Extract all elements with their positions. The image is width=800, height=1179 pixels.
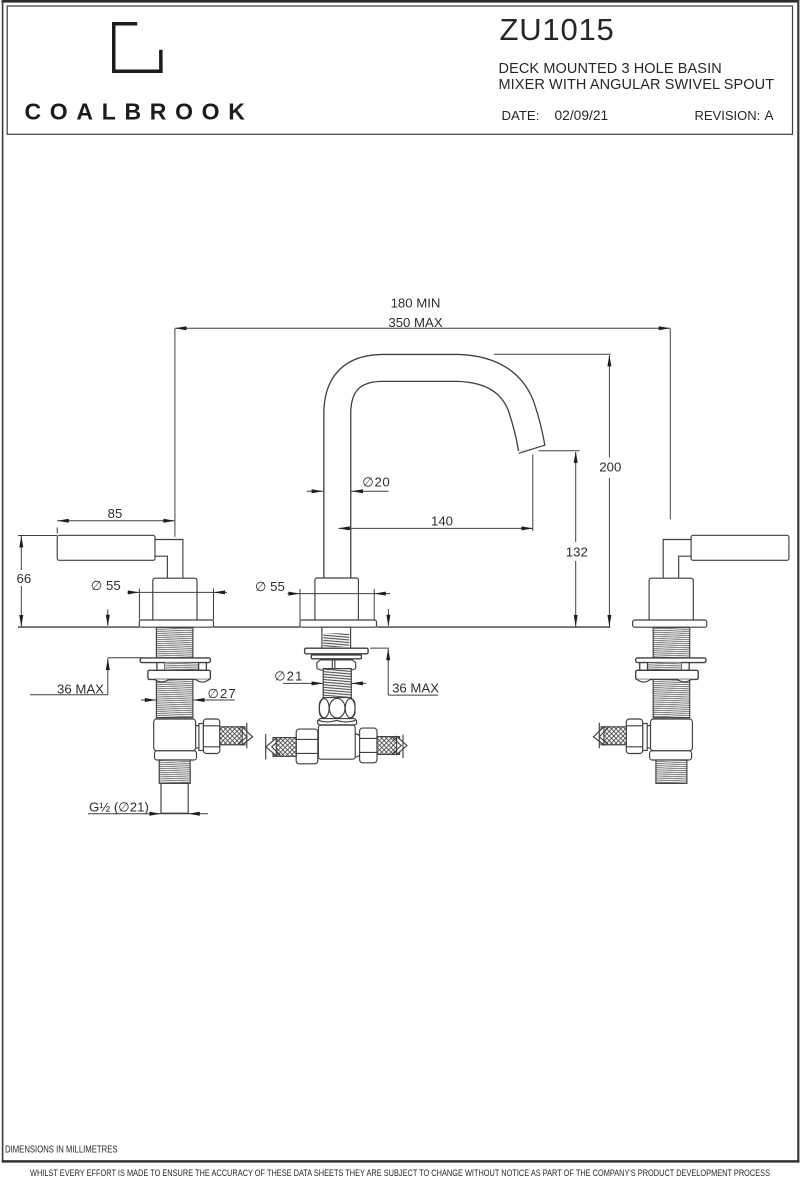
dim 200 extension top bbox=[494, 353, 611, 355]
right handle assembly (mirror of left) bbox=[594, 535, 789, 783]
dim 66 extension top bbox=[18, 535, 57, 537]
coalbrook logo mark bbox=[112, 22, 163, 73]
spout hex nut bbox=[317, 660, 356, 671]
dim O20 line right bbox=[351, 490, 388, 492]
spout flange bbox=[300, 620, 377, 627]
arrows 140 bbox=[338, 526, 350, 530]
svg-text:REVISION:: REVISION: bbox=[695, 108, 761, 123]
bottom page border bbox=[2, 1160, 800, 1162]
arrows 36MAX center bbox=[386, 615, 390, 627]
elbow inner bbox=[155, 556, 167, 578]
arrows G1/2 bbox=[149, 812, 161, 816]
spout left hose cone bbox=[311, 735, 324, 758]
svg-text:DECK MOUNTED 3 HOLE BASIN: DECK MOUNTED 3 HOLE BASIN bbox=[499, 61, 722, 77]
svg-text:DIMENSIONS IN MILLIMETRES: DIMENSIONS IN MILLIMETRES bbox=[5, 1144, 118, 1155]
elbow outer bbox=[155, 540, 183, 579]
svg-text:∅ 55: ∅ 55 bbox=[91, 578, 121, 593]
deck line left segment bbox=[18, 626, 139, 628]
header box bbox=[7, 6, 792, 134]
lever bbox=[57, 535, 155, 560]
spout left hose break bbox=[266, 734, 281, 760]
right page border bbox=[797, 0, 799, 1163]
dim O20 line left bbox=[307, 490, 323, 492]
hose break bbox=[238, 723, 253, 749]
dim 85 extension left bbox=[56, 528, 58, 534]
hose braid bbox=[220, 727, 245, 745]
spout tip cleanup bbox=[518, 445, 553, 476]
hose cone bbox=[190, 726, 204, 749]
tab left bbox=[157, 663, 165, 671]
locking nut bbox=[148, 670, 211, 679]
deck line between left handle and spout bbox=[214, 626, 301, 628]
dim 132 extension top bbox=[539, 450, 580, 452]
svg-text:∅ 55: ∅ 55 bbox=[255, 579, 285, 594]
svg-text:180 MIN: 180 MIN bbox=[391, 296, 441, 311]
arrows O21 bbox=[312, 681, 324, 685]
tab right bbox=[199, 663, 207, 671]
arrows 350MAX bbox=[175, 326, 187, 330]
svg-text:DATE:: DATE: bbox=[502, 108, 540, 123]
flange bbox=[139, 620, 213, 627]
arrows 36MAX left bbox=[106, 615, 110, 627]
svg-text:200: 200 bbox=[599, 459, 621, 474]
spout right hose cone bbox=[350, 734, 363, 757]
svg-text:∅21: ∅21 bbox=[274, 669, 303, 684]
dim 36MAX left line bbox=[107, 609, 109, 625]
svg-text:∅20: ∅20 bbox=[362, 474, 390, 489]
spout shank below deck bbox=[322, 627, 351, 648]
dim 36MAX left extension bbox=[108, 657, 143, 659]
extension line left handle axis bbox=[174, 329, 176, 537]
dim 66 line bbox=[20, 536, 22, 570]
spout threaded tail (Ø21) bbox=[323, 669, 351, 698]
tee collar bbox=[155, 751, 197, 760]
left handle assembly bbox=[57, 535, 252, 783]
dim 36MAX center line bbox=[387, 609, 389, 626]
arrows O55 left bbox=[128, 590, 140, 594]
dim O55 left line bbox=[128, 591, 228, 593]
hose ring bbox=[199, 724, 204, 751]
nut bottom arcs bbox=[155, 679, 210, 682]
spout tube (gooseneck) bbox=[337, 368, 532, 600]
dim 200 line bbox=[608, 356, 610, 458]
deck line right of spout bbox=[377, 626, 611, 628]
spout compression union bbox=[319, 698, 355, 719]
dim 85 line bbox=[57, 520, 175, 522]
thread between tabs bbox=[165, 663, 199, 671]
extension line right handle axis bbox=[669, 329, 671, 520]
spout base cylinder bbox=[315, 578, 359, 620]
svg-text:132: 132 bbox=[566, 545, 588, 560]
lower threaded shank bbox=[156, 679, 193, 717]
dim O55 left extensions bbox=[138, 589, 140, 621]
upper threaded shank bbox=[156, 627, 193, 658]
dim O55 center extensions bbox=[299, 589, 301, 620]
svg-text:66: 66 bbox=[17, 571, 32, 586]
svg-text:36 MAX: 36 MAX bbox=[392, 681, 439, 696]
dim O55 center line bbox=[288, 593, 391, 595]
dim 180MIN/350MAX line bbox=[175, 327, 670, 329]
dim G1/2 line bbox=[88, 813, 208, 815]
arrows 200 bbox=[607, 355, 611, 367]
svg-text:36 MAX: 36 MAX bbox=[57, 682, 104, 697]
dim O21 line bbox=[283, 682, 323, 684]
hose hex nut bbox=[203, 719, 219, 754]
tee body bbox=[154, 719, 196, 751]
svg-text:ZU1015: ZU1015 bbox=[500, 12, 615, 47]
dim 36MAX center extension bbox=[370, 647, 389, 649]
arrows 132 bbox=[574, 451, 578, 463]
arrowheads bbox=[19, 326, 670, 816]
arrows 85 bbox=[57, 519, 69, 523]
left page border bbox=[2, 0, 4, 1163]
valve body bbox=[153, 578, 197, 620]
dim 140 extension right bbox=[532, 455, 534, 532]
arrows O55 center bbox=[288, 592, 300, 596]
spout right hose break bbox=[392, 735, 407, 758]
spout left hose braid bbox=[273, 738, 296, 757]
svg-text:G½ (∅21): G½ (∅21) bbox=[89, 800, 149, 815]
spout tip end face bbox=[519, 445, 545, 453]
lower thread bbox=[159, 760, 190, 783]
svg-text:85: 85 bbox=[108, 506, 123, 521]
arrows O20 bbox=[312, 489, 324, 493]
spout backnut washer 1 bbox=[305, 648, 369, 654]
spout tee body bbox=[318, 725, 355, 759]
spout right hose hex nut bbox=[360, 728, 377, 763]
top black bar bbox=[2, 0, 800, 3]
spout right hose braid bbox=[377, 737, 400, 755]
svg-text:WHILST EVERY EFFORT IS MADE TO: WHILST EVERY EFFORT IS MADE TO ENSURE TH… bbox=[30, 1168, 770, 1179]
svg-text:350 MAX: 350 MAX bbox=[388, 315, 442, 330]
svg-text:COALBROOK: COALBROOK bbox=[25, 99, 254, 125]
arrows 66 bbox=[19, 536, 23, 548]
dim 140 line bbox=[339, 527, 534, 529]
spout backnut washer 2 bbox=[311, 655, 361, 659]
svg-text:A: A bbox=[765, 108, 774, 123]
arrows O27 bbox=[145, 698, 157, 702]
spout tee collar bbox=[318, 719, 357, 725]
spout left hose hex nut bbox=[296, 729, 318, 764]
dim O27 line bbox=[141, 699, 156, 701]
svg-text:140: 140 bbox=[431, 513, 453, 528]
dim 132 line bbox=[575, 452, 577, 542]
svg-text:MIXER WITH ANGULAR SWIVEL SPOU: MIXER WITH ANGULAR SWIVEL SPOUT bbox=[499, 77, 775, 93]
left tailpiece G1/2 bbox=[161, 783, 188, 813]
washer bbox=[140, 658, 210, 663]
svg-text:02/09/21: 02/09/21 bbox=[555, 108, 609, 123]
svg-text:∅27: ∅27 bbox=[208, 686, 237, 701]
